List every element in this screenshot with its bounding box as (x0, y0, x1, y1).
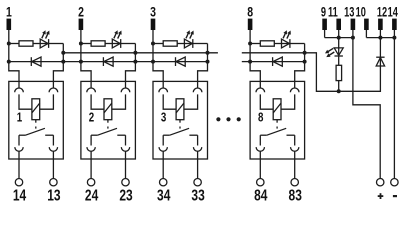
input wire ch1 (9, 30, 19, 88)
relay box ch2 (81, 81, 135, 159)
LED D2a (112, 39, 120, 48)
terminal 12 label (377, 3, 388, 20)
diode D8b (250, 57, 305, 66)
terminal 13 label (344, 3, 355, 20)
wire resistor-LED ch8 (274, 43, 281, 45)
svg-text:8: 8 (247, 4, 253, 20)
bus B stub right (242, 61, 250, 63)
terminal 9 block (322, 19, 327, 30)
node input ch3 (151, 42, 155, 46)
terminal 24 circle (87, 179, 94, 186)
switch lead right ch1 (52, 135, 54, 145)
terminal + circle (377, 179, 384, 186)
wire terminal 14 (393, 30, 395, 179)
node bar2-14 (392, 36, 396, 40)
terminal - circle (391, 179, 398, 186)
svg-text:10: 10 (356, 3, 367, 20)
diode D3b (153, 57, 208, 66)
minus sign (393, 195, 397, 197)
coil lead left ch3 (163, 94, 176, 109)
node output-B ch8 (303, 60, 307, 64)
node input ch2 (79, 42, 83, 46)
terminal 33 label (191, 186, 204, 204)
common return wire (242, 53, 381, 92)
node input ch1 (7, 42, 11, 46)
socket bottom-right ch1 (49, 147, 57, 151)
svg-text:83: 83 (289, 186, 302, 204)
wire terminal 12 (379, 30, 381, 57)
power LED arrows (325, 48, 334, 57)
coil label 2 (89, 111, 94, 125)
switch lead right ch8 (294, 135, 296, 145)
svg-text:3: 3 (161, 111, 166, 125)
switch lead left ch1 (18, 135, 20, 145)
terminal 23 label (119, 186, 132, 204)
node output-A ch8 (303, 51, 307, 55)
terminal 14 circle (15, 179, 22, 186)
svg-text:24: 24 (85, 186, 98, 204)
terminal 24 label (85, 186, 98, 204)
wire resistor-LED ch2 (105, 43, 112, 45)
diode Dp (376, 57, 384, 66)
terminal 11 block (336, 19, 341, 30)
svg-text:11: 11 (328, 3, 338, 20)
wire to terminal 33 (197, 151, 199, 178)
switch lead left ch2 (90, 135, 92, 145)
terminal 2 label (78, 4, 84, 20)
output wire ch2 (126, 44, 136, 88)
wire resistor-common (338, 81, 340, 92)
socket top-right ch3 (193, 88, 202, 92)
terminal 14 block (392, 19, 397, 30)
coil label 8 (258, 111, 264, 125)
wire resistor-LED ch3 (177, 43, 184, 45)
wire terminal 10 (365, 30, 367, 38)
LED arrows ch2 (114, 30, 122, 38)
node output-A ch3 (206, 51, 210, 55)
ellipsis dots (216, 117, 241, 121)
coil label 3 (161, 111, 166, 125)
terminal 33 circle (194, 179, 201, 186)
coil lead right ch2 (112, 94, 126, 109)
node bar1-11 (337, 36, 341, 40)
switch lead left ch3 (162, 135, 164, 145)
wire to terminal 34 (162, 151, 164, 178)
node bar2-12 (378, 36, 382, 40)
node output-B ch1 (61, 60, 65, 64)
node input-B ch1 (7, 60, 11, 64)
resistor Rp (336, 65, 342, 80)
contact switch ch2 (91, 128, 125, 135)
coil lead right ch8 (281, 94, 295, 109)
relay box ch1 (9, 81, 64, 159)
relay coil K1 (32, 99, 40, 120)
contact switch ch3 (163, 128, 197, 135)
LED D1a (40, 39, 48, 48)
terminal 3 label (150, 4, 156, 20)
bus B ch1-ch2 (63, 61, 81, 63)
terminal 14 label (388, 3, 399, 20)
socket top-right ch2 (121, 88, 130, 92)
socket top-left ch8 (256, 88, 265, 92)
terminal 13 block (351, 19, 356, 30)
terminal 34 label (157, 186, 170, 204)
switch lead right ch2 (125, 135, 127, 145)
svg-text:1: 1 (6, 4, 12, 20)
wire LED-out ch2 (121, 43, 136, 45)
terminal 83 circle (291, 179, 298, 186)
socket top-right ch1 (49, 88, 58, 92)
terminal 13 label (47, 186, 60, 204)
socket bottom-right ch3 (193, 147, 201, 151)
wire to terminal 83 (294, 151, 296, 178)
power LED (334, 48, 343, 56)
LED arrows ch1 (42, 30, 50, 38)
node output-A ch1 (61, 51, 65, 55)
relay box ch3 (153, 81, 208, 159)
terminal 1 block (7, 19, 12, 30)
wire to terminal 24 (90, 151, 92, 178)
wire terminal 13 (353, 30, 380, 179)
terminal 83 label (289, 186, 302, 204)
svg-text:84: 84 (254, 186, 267, 204)
node output-B ch2 (133, 60, 137, 64)
input wire ch8 (250, 30, 260, 88)
relay coil K8 (273, 99, 281, 120)
terminal 84 label (254, 186, 267, 204)
coil lead right ch3 (184, 94, 198, 109)
socket bottom-left ch2 (87, 147, 95, 151)
wire to terminal 23 (125, 151, 127, 178)
svg-text:2: 2 (78, 4, 84, 20)
wire to terminal 13 (52, 151, 54, 178)
wire to resistor ch8 (250, 43, 260, 45)
node output-B ch3 (206, 60, 210, 64)
actuator link ch3 (179, 120, 181, 129)
socket top-right ch8 (290, 88, 299, 92)
wire terminal 11 (338, 30, 340, 48)
svg-text:9: 9 (321, 3, 326, 20)
output wire ch1 (53, 44, 63, 88)
terminal 2 block (79, 19, 84, 30)
terminal 12 block (378, 19, 383, 30)
svg-text:34: 34 (157, 186, 170, 204)
wire to resistor ch1 (9, 43, 19, 45)
node output-A ch2 (133, 51, 137, 55)
terminal 9 label (321, 3, 326, 20)
terminal 34 circle (160, 179, 167, 186)
node input-B ch2 (79, 60, 83, 64)
terminal 10 block (364, 19, 369, 30)
wire to terminal 14 (18, 151, 20, 178)
actuator link ch1 (35, 120, 37, 129)
bus B ch2-ch3 (135, 61, 153, 63)
svg-text:12: 12 (377, 3, 388, 20)
plus sign (378, 193, 384, 199)
svg-text:13: 13 (344, 3, 355, 20)
socket bottom-left ch8 (256, 147, 264, 151)
svg-text:33: 33 (191, 186, 204, 204)
relay box ch8 (250, 81, 305, 159)
resistor R8 (260, 41, 274, 46)
terminal 1 label (6, 4, 12, 20)
switch lead right ch3 (197, 135, 199, 145)
output wire ch8 (295, 44, 305, 88)
wire to resistor ch3 (153, 43, 163, 45)
svg-text:8: 8 (258, 111, 264, 125)
contact switch ch1 (19, 128, 53, 135)
svg-text:14: 14 (388, 3, 399, 20)
resistor R2 (91, 41, 105, 46)
terminal 13 circle (50, 179, 57, 186)
wire LED-out ch1 (49, 43, 64, 45)
svg-text:13: 13 (47, 186, 60, 204)
relay coil K3 (176, 99, 184, 120)
bar 9-11-13 (325, 37, 353, 39)
socket bottom-left ch1 (15, 147, 23, 151)
diode D2b (81, 57, 135, 66)
node input-B ch8 (248, 60, 252, 64)
bus A segment 1 (63, 52, 218, 54)
diode D1b (9, 57, 64, 66)
wire resistor-LED ch1 (33, 43, 40, 45)
LED arrows ch3 (186, 30, 194, 38)
socket bottom-left ch3 (159, 147, 167, 151)
relay coil K2 (104, 99, 112, 120)
LED D8a (282, 39, 290, 48)
terminal 10 label (356, 3, 367, 20)
svg-text:1: 1 (17, 111, 23, 125)
socket top-left ch3 (159, 88, 168, 92)
wire terminal 9 (324, 30, 326, 38)
coil lead left ch1 (19, 94, 32, 109)
coil lead right ch1 (40, 94, 54, 109)
socket bottom-right ch8 (291, 147, 299, 151)
wire LED-out ch8 (290, 43, 305, 45)
svg-text:14: 14 (13, 186, 26, 204)
terminal 23 circle (122, 179, 129, 186)
node input-B ch3 (151, 60, 155, 64)
svg-text:2: 2 (89, 111, 94, 125)
node input ch8 (248, 42, 252, 46)
resistor R1 (19, 41, 33, 46)
socket bottom-right ch2 (121, 147, 129, 151)
actuator link ch2 (107, 120, 109, 129)
svg-text:23: 23 (119, 186, 132, 204)
contact switch ch8 (260, 128, 294, 135)
wire to resistor ch2 (81, 43, 91, 45)
socket top-left ch1 (15, 88, 24, 92)
node bar1-13 (351, 36, 355, 40)
resistor R3 (163, 41, 177, 46)
switch lead left ch8 (259, 135, 261, 145)
terminal 84 circle (257, 179, 264, 186)
terminal 11 label (328, 3, 338, 20)
LED D3a (184, 39, 192, 48)
terminal 8 block (248, 19, 253, 30)
coil lead left ch2 (91, 94, 104, 109)
svg-text:3: 3 (150, 4, 156, 20)
wire LED-out ch3 (193, 43, 208, 45)
coil label 1 (17, 111, 23, 125)
node resistor-common (337, 89, 341, 93)
input wire ch3 (153, 30, 163, 88)
input wire ch2 (81, 30, 91, 88)
wire LED-resistor (338, 56, 340, 65)
bar 10-12-14 (366, 37, 394, 39)
actuator link ch8 (276, 120, 278, 129)
terminal 14 label (13, 186, 26, 204)
socket top-left ch2 (87, 88, 96, 92)
terminal 8 label (247, 4, 253, 20)
coil lead left ch8 (260, 94, 273, 109)
output wire ch3 (198, 44, 208, 88)
LED arrows ch8 (283, 30, 291, 38)
wire to terminal 84 (259, 151, 261, 178)
terminal 3 block (151, 19, 156, 30)
